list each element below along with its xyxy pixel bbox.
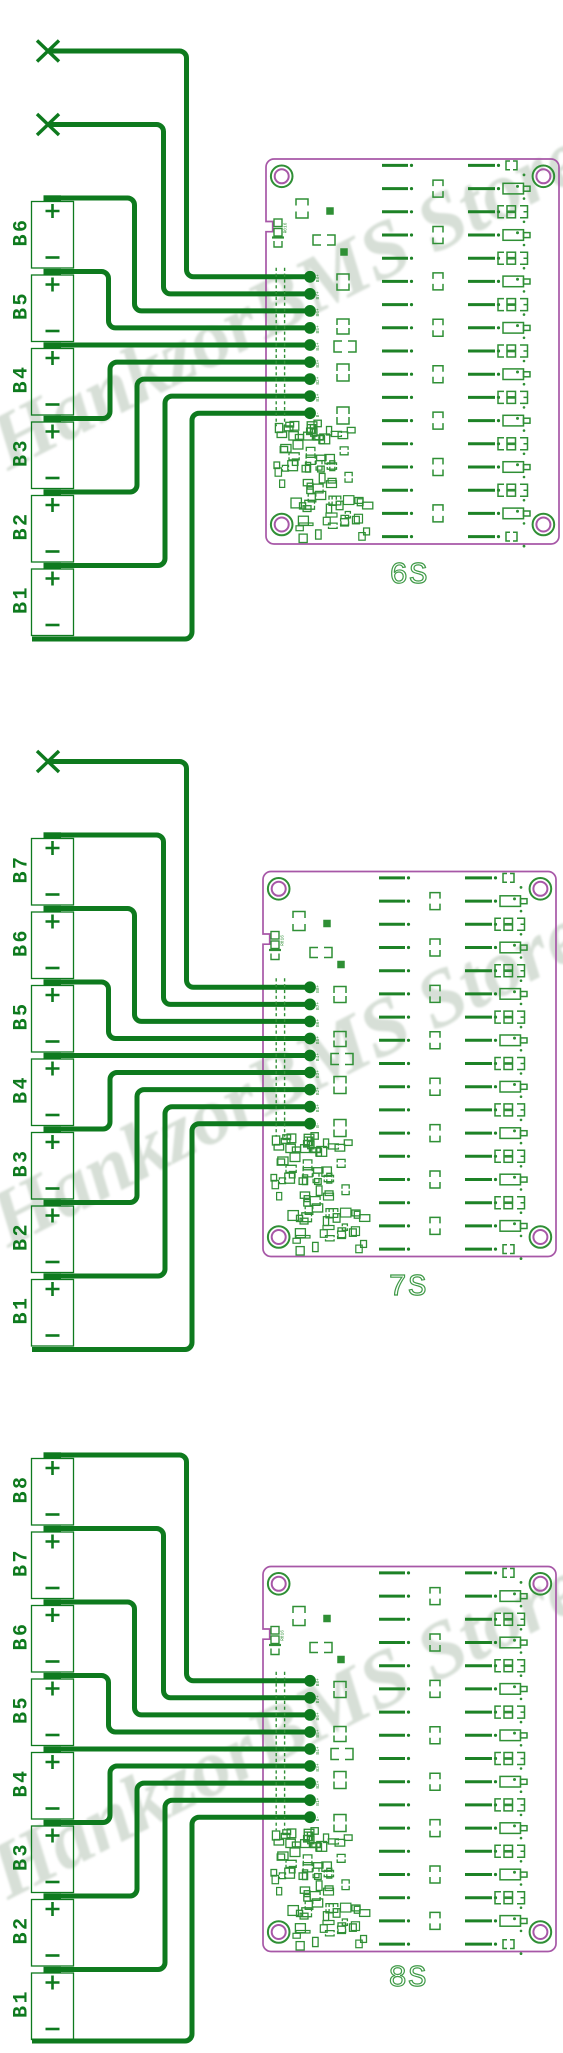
wire B- (battery B1 negative) to pad 9 [32, 413, 310, 639]
svg-text:B3: B3 [11, 438, 34, 467]
battery B6 [11, 906, 74, 979]
wire B1+ to pad 8 [44, 1800, 310, 1969]
PCB board (6S) [266, 159, 559, 548]
wire B2+ to pad 7 [44, 1783, 310, 1896]
wire unused pad 1 [48, 51, 310, 277]
wire B7+ to pad 2 [44, 1529, 310, 1698]
battery B1 [11, 1273, 74, 1346]
svg-text:6S: 6S [389, 558, 428, 593]
svg-text:B3: B3 [11, 1148, 34, 1177]
balance pad B5+ [304, 322, 321, 334]
PCB board (8S) [263, 1567, 556, 1956]
wire B3+ to pad 6 [44, 362, 310, 418]
svg-text:B3+: B3+ [315, 1070, 321, 1078]
balance pad B3+ [304, 356, 321, 368]
battery B5 [11, 269, 74, 342]
wire B5+ to pad 4 [44, 1676, 310, 1733]
not-connected X mark [37, 751, 59, 772]
balance pad B5+ [304, 1033, 321, 1045]
balance pad B7+ [304, 999, 321, 1011]
battery B6 [11, 195, 74, 268]
svg-text:B2+: B2+ [315, 376, 321, 384]
balance pad B8+ [304, 1675, 321, 1687]
balance pad B8+ [304, 271, 321, 283]
balance pad B2+ [304, 373, 321, 385]
svg-text:B5: B5 [11, 1001, 34, 1030]
wire B8+ to pad 1 [44, 1455, 310, 1681]
svg-text:B3: B3 [11, 1842, 34, 1871]
battery B1 [11, 1967, 74, 2040]
svg-text:B3+: B3+ [315, 1763, 321, 1771]
svg-text:B5+: B5+ [315, 325, 321, 333]
svg-text:B-: B- [315, 1122, 321, 1127]
svg-text:B3+: B3+ [315, 359, 321, 367]
svg-text:B8+: B8+ [315, 984, 321, 992]
svg-text:B7+: B7+ [315, 1002, 321, 1010]
wire B- (battery B1 negative) to pad 9 [32, 1124, 310, 1350]
balance pad B4+ [304, 1050, 321, 1062]
svg-text:7S: 7S [388, 1270, 427, 1305]
balance pad B- [304, 1118, 321, 1130]
balance pad B3+ [304, 1067, 321, 1079]
dashed alignment lines [276, 1672, 284, 1830]
dashed alignment lines [276, 268, 284, 426]
svg-text:B-: B- [315, 1816, 321, 1821]
svg-text:B2: B2 [11, 1222, 34, 1251]
balance pad B7+ [304, 288, 321, 300]
battery B2 [11, 489, 74, 562]
wire B5+ to pad 4 [44, 272, 310, 328]
not-connected X mark [37, 41, 59, 62]
svg-text:B-: B- [315, 412, 321, 417]
svg-text:B2+: B2+ [315, 1087, 321, 1095]
svg-text:B4+: B4+ [315, 1746, 321, 1754]
svg-text:B6+: B6+ [315, 1712, 321, 1720]
battery B2 [11, 1893, 74, 1966]
wire unused pad 1 [48, 762, 310, 988]
battery B6 [11, 1599, 74, 1672]
balance pad B5+ [304, 1726, 321, 1738]
svg-text:B7+: B7+ [315, 291, 321, 299]
balance pad B6+ [304, 305, 321, 317]
svg-text:8S: 8S [388, 1961, 427, 1996]
svg-text:B8: B8 [11, 1474, 34, 1503]
svg-text:B2+: B2+ [315, 1780, 321, 1788]
balance pad B4+ [304, 339, 321, 351]
PCB board (7S) [263, 872, 556, 1261]
battery B1 [11, 563, 74, 636]
battery B7 [11, 1526, 74, 1599]
balance pad B6+ [304, 1016, 321, 1028]
balance pad B8+ [304, 981, 321, 993]
wire B4+ to pad 5 [44, 343, 310, 348]
balance pad B1+ [304, 1794, 321, 1806]
wire B4+ to pad 5 [44, 1053, 310, 1058]
battery B3 [11, 1820, 74, 1893]
svg-text:B1: B1 [11, 1989, 34, 2018]
svg-text:B6+: B6+ [315, 1019, 321, 1027]
battery B5 [11, 1673, 74, 1746]
wire B4+ to pad 5 [44, 1747, 310, 1752]
balance pad B- [304, 1811, 321, 1823]
wire unused pad 2 [48, 125, 310, 294]
svg-text:B5: B5 [11, 291, 34, 320]
svg-text:B7: B7 [11, 1548, 34, 1577]
balance pad B6+ [304, 1709, 321, 1721]
svg-text:B1+: B1+ [315, 1104, 321, 1112]
svg-text:B4+: B4+ [315, 1053, 321, 1061]
balance pad B3+ [304, 1760, 321, 1772]
wire B6+ to pad 3 [44, 909, 310, 1022]
svg-text:B2: B2 [11, 511, 34, 540]
battery B4 [11, 342, 74, 415]
balance pad B1+ [304, 390, 321, 402]
balance pad B2+ [304, 1084, 321, 1096]
balance pad B7+ [304, 1692, 321, 1704]
svg-text:B2: B2 [11, 1915, 34, 1944]
wire B7+ to pad 2 [44, 835, 310, 1004]
battery B4 [11, 1746, 74, 1819]
svg-text:B7: B7 [11, 854, 34, 883]
balance pad B- [304, 407, 321, 419]
battery B2 [11, 1200, 74, 1273]
battery B7 [11, 832, 74, 905]
svg-text:B5+: B5+ [315, 1729, 321, 1737]
svg-text:B4: B4 [11, 1075, 34, 1104]
battery B4 [11, 1053, 74, 1126]
svg-text:B1+: B1+ [315, 1797, 321, 1805]
wire B1+ to pad 8 [44, 1107, 310, 1276]
svg-text:B1: B1 [11, 1295, 34, 1324]
svg-text:B6: B6 [11, 217, 34, 246]
svg-text:B6: B6 [11, 1621, 34, 1650]
dashed alignment lines [276, 978, 284, 1136]
balance pad B4+ [304, 1743, 321, 1755]
svg-text:B6: B6 [11, 928, 34, 957]
svg-text:B5: B5 [11, 1695, 34, 1724]
svg-text:B6+: B6+ [315, 308, 321, 316]
svg-text:B7+: B7+ [315, 1695, 321, 1703]
wire B3+ to pad 6 [44, 1766, 310, 1823]
battery B3 [11, 416, 74, 489]
balance pad B2+ [304, 1777, 321, 1789]
wire B5+ to pad 4 [44, 982, 310, 1039]
balance pad B1+ [304, 1101, 321, 1113]
svg-text:B5+: B5+ [315, 1036, 321, 1044]
svg-text:B4: B4 [11, 1768, 34, 1797]
wire B2+ to pad 7 [44, 1090, 310, 1203]
not-connected X mark [37, 114, 59, 135]
svg-text:B1+: B1+ [315, 393, 321, 401]
wire B3+ to pad 6 [44, 1073, 310, 1130]
svg-text:B8+: B8+ [315, 274, 321, 282]
svg-text:B8+: B8+ [315, 1678, 321, 1686]
svg-text:B4: B4 [11, 364, 34, 393]
wire B6+ to pad 3 [44, 198, 310, 311]
battery B5 [11, 979, 74, 1052]
wire B2+ to pad 7 [44, 379, 310, 492]
battery B8 [11, 1452, 74, 1525]
battery B3 [11, 1126, 74, 1199]
wire B1+ to pad 8 [44, 396, 310, 565]
wire B6+ to pad 3 [44, 1602, 310, 1715]
svg-text:B4+: B4+ [315, 342, 321, 350]
wire B- (battery B1 negative) to pad 9 [32, 1817, 310, 2041]
svg-text:B1: B1 [11, 585, 34, 614]
